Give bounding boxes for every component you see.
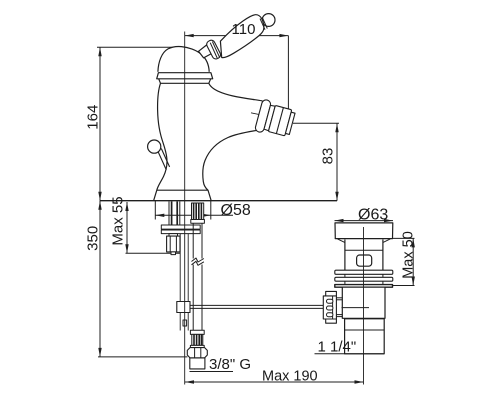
faucet centerline [184, 32, 186, 385]
svg-text:350: 350 [84, 226, 101, 251]
drain ring 3 [335, 285, 393, 288]
dimension 83 line [293, 123, 339, 200]
dimension Max50 line [335, 238, 415, 285]
drain tailpipe [345, 319, 385, 354]
pop-up rod tip [183, 320, 187, 326]
dimension Max55 line [125, 202, 180, 253]
dimension Ø58 line [155, 201, 233, 220]
svg-text:Ø63: Ø63 [358, 207, 388, 224]
faucet body shoulder line [159, 79, 211, 84]
supply shank threads [192, 203, 204, 220]
hose break symbol [192, 258, 204, 265]
drain flange [335, 223, 393, 239]
drain flange chamfers [338, 239, 346, 243]
svg-text:Max 55: Max 55 [109, 196, 126, 245]
hose end collar [190, 330, 204, 334]
mounting nut [169, 234, 178, 237]
knob top cap [326, 291, 337, 296]
drain overflow hole [357, 255, 372, 266]
hose end tube [190, 358, 205, 369]
handle lever body [220, 15, 263, 58]
dimension Max190 line [185, 380, 364, 383]
pop-up rod guide tube [179, 234, 181, 331]
knurled rod knob body [323, 296, 336, 319]
dimension 350 line [98, 201, 187, 357]
spout collar ring A [254, 99, 271, 133]
knob knurl slots [327, 299, 333, 303]
hose end hex nut [187, 348, 207, 358]
dimension 164 line [97, 47, 181, 200]
svg-text:Max 190: Max 190 [262, 369, 318, 385]
svg-text:164: 164 [84, 105, 101, 130]
handle ball neck rings [260, 19, 265, 30]
knob bottom cap [326, 319, 337, 323]
handle ball [262, 14, 275, 27]
supply hose walls [192, 223, 194, 258]
dimension 110 line [185, 34, 289, 37]
supply shank ring [191, 220, 205, 224]
svg-text:1 1/4": 1 1/4" [318, 338, 357, 355]
faucet collar [157, 73, 213, 79]
drain centerline [363, 227, 365, 385]
handle collar rings [205, 39, 221, 60]
spout aerator body [264, 104, 296, 137]
svg-text:Max 50: Max 50 [400, 231, 416, 279]
faucet dome [158, 46, 209, 71]
pop-up knob [148, 140, 161, 153]
drain ring 2 [335, 277, 393, 281]
label 3/8 G leader line [190, 371, 234, 373]
faucet body outline [154, 83, 263, 200]
tailpipe joint line [345, 329, 385, 331]
faucet base ring line [157, 189, 208, 191]
svg-text:Ø58: Ø58 [221, 202, 251, 219]
knob axle lines [336, 298, 342, 317]
label 1 1/4 leader line [315, 353, 385, 355]
washer plates [161, 225, 200, 229]
drain ring 1 [335, 270, 393, 274]
rod inside coupling [342, 307, 370, 309]
pop-up knob stem [158, 149, 170, 170]
horizontal pop-up rod [190, 304, 324, 306]
drain coupling body [342, 287, 385, 318]
deck line [100, 200, 337, 202]
dimension Ø63 line [335, 219, 394, 222]
svg-text:83: 83 [319, 148, 336, 165]
hose end threads 3/8 [192, 334, 203, 345]
spout tip extension vertical line [287, 36, 289, 110]
drain neck body [345, 240, 383, 271]
spout axis line [251, 113, 293, 122]
drain body segments between rings [345, 274, 383, 284]
svg-text:3/8" G: 3/8" G [209, 356, 251, 373]
svg-text:110: 110 [232, 21, 256, 38]
under-deck stud threads [169, 202, 180, 226]
handle stem [199, 44, 214, 58]
knob right plate line [332, 296, 334, 319]
pop-up rod clamp [177, 302, 190, 313]
